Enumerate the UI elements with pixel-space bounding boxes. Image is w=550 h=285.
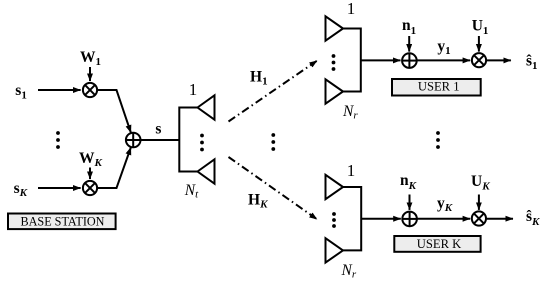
wire nK to adder bbox=[409, 195, 411, 210]
wire rxK to adder bbox=[361, 218, 401, 220]
svg-text:W1: W1 bbox=[80, 49, 101, 68]
svg-text:s: s bbox=[155, 120, 161, 137]
wire output s1 arrow bbox=[487, 59, 511, 61]
rxK antenna 1 bbox=[326, 175, 344, 199]
adder sum circle bbox=[126, 133, 141, 148]
channel HK dash-dot arrow bbox=[229, 157, 318, 219]
user K box bbox=[394, 236, 480, 252]
adder nK circle bbox=[402, 212, 417, 227]
svg-text:1: 1 bbox=[347, 0, 356, 18]
wire multiplier W1 to adder bbox=[97, 90, 131, 133]
wire WK to multiplier bbox=[89, 168, 91, 180]
adder n1 circle bbox=[402, 53, 417, 68]
svg-text:HK: HK bbox=[248, 192, 268, 211]
user 1 box bbox=[392, 79, 481, 96]
svg-text:H1: H1 bbox=[250, 69, 268, 88]
dots left inputs bbox=[56, 131, 60, 149]
multiplier W1 circle bbox=[83, 83, 97, 97]
tx antenna 1 bbox=[198, 95, 215, 119]
multiplier U1 circle bbox=[472, 53, 486, 67]
wire U1 to multiplier bbox=[478, 36, 480, 52]
tx antenna bus bbox=[179, 108, 197, 172]
dots rxK antennas bbox=[332, 212, 336, 228]
svg-text:BASE STATION: BASE STATION bbox=[20, 214, 104, 228]
svg-text:y1: y1 bbox=[437, 38, 450, 57]
wire UK to multiplier bbox=[478, 195, 480, 210]
rx1 antenna bus bbox=[343, 29, 361, 92]
svg-text:WK: WK bbox=[79, 150, 103, 169]
multiplier WK circle bbox=[83, 181, 97, 195]
base station box bbox=[8, 214, 116, 230]
rxK antenna Nr bbox=[326, 238, 344, 262]
svg-text:1: 1 bbox=[347, 161, 356, 180]
svg-text:s1: s1 bbox=[15, 82, 27, 102]
svg-text:ŝK: ŝK bbox=[526, 208, 540, 228]
wire n1 to adder bbox=[408, 36, 410, 52]
dots rx1 antennas bbox=[332, 54, 336, 71]
svg-text:nK: nK bbox=[400, 172, 417, 192]
svg-text:U1: U1 bbox=[472, 18, 489, 38]
wire yK adder to multiplier bbox=[417, 218, 470, 220]
rx1 antenna Nr bbox=[326, 79, 344, 103]
wire y1 adder to multiplier bbox=[417, 59, 470, 61]
svg-text:USER 1: USER 1 bbox=[418, 79, 460, 93]
svg-text:USER K: USER K bbox=[417, 237, 461, 251]
svg-text:Nr: Nr bbox=[341, 262, 357, 280]
wire rx1 to adder bbox=[361, 59, 401, 61]
svg-text:ŝ1: ŝ1 bbox=[526, 52, 538, 71]
svg-text:UK: UK bbox=[471, 173, 490, 193]
wire output sK arrow bbox=[487, 218, 513, 220]
svg-text:1: 1 bbox=[189, 80, 198, 99]
svg-text:n1: n1 bbox=[402, 17, 416, 37]
svg-text:sK: sK bbox=[14, 180, 28, 199]
wire multiplier WK to adder bbox=[97, 147, 131, 188]
rxK antenna bus bbox=[343, 187, 361, 250]
svg-text:Nt: Nt bbox=[184, 182, 199, 200]
wire adder to tx array bbox=[141, 139, 180, 141]
dots tx antennas bbox=[200, 134, 204, 152]
wire s1 input arrow bbox=[38, 89, 81, 91]
channel H1 dash-dot arrow bbox=[229, 61, 318, 122]
wire sK input arrow bbox=[38, 187, 81, 189]
dots users middle bbox=[436, 131, 440, 149]
svg-text:Nr: Nr bbox=[342, 103, 358, 121]
tx antenna Nt bbox=[198, 159, 215, 183]
multiplier UK circle bbox=[472, 211, 486, 225]
rx1 antenna 1 bbox=[326, 16, 344, 40]
dots channels middle bbox=[271, 133, 275, 151]
svg-text:yK: yK bbox=[437, 195, 453, 214]
wire W1 to multiplier bbox=[89, 67, 91, 81]
